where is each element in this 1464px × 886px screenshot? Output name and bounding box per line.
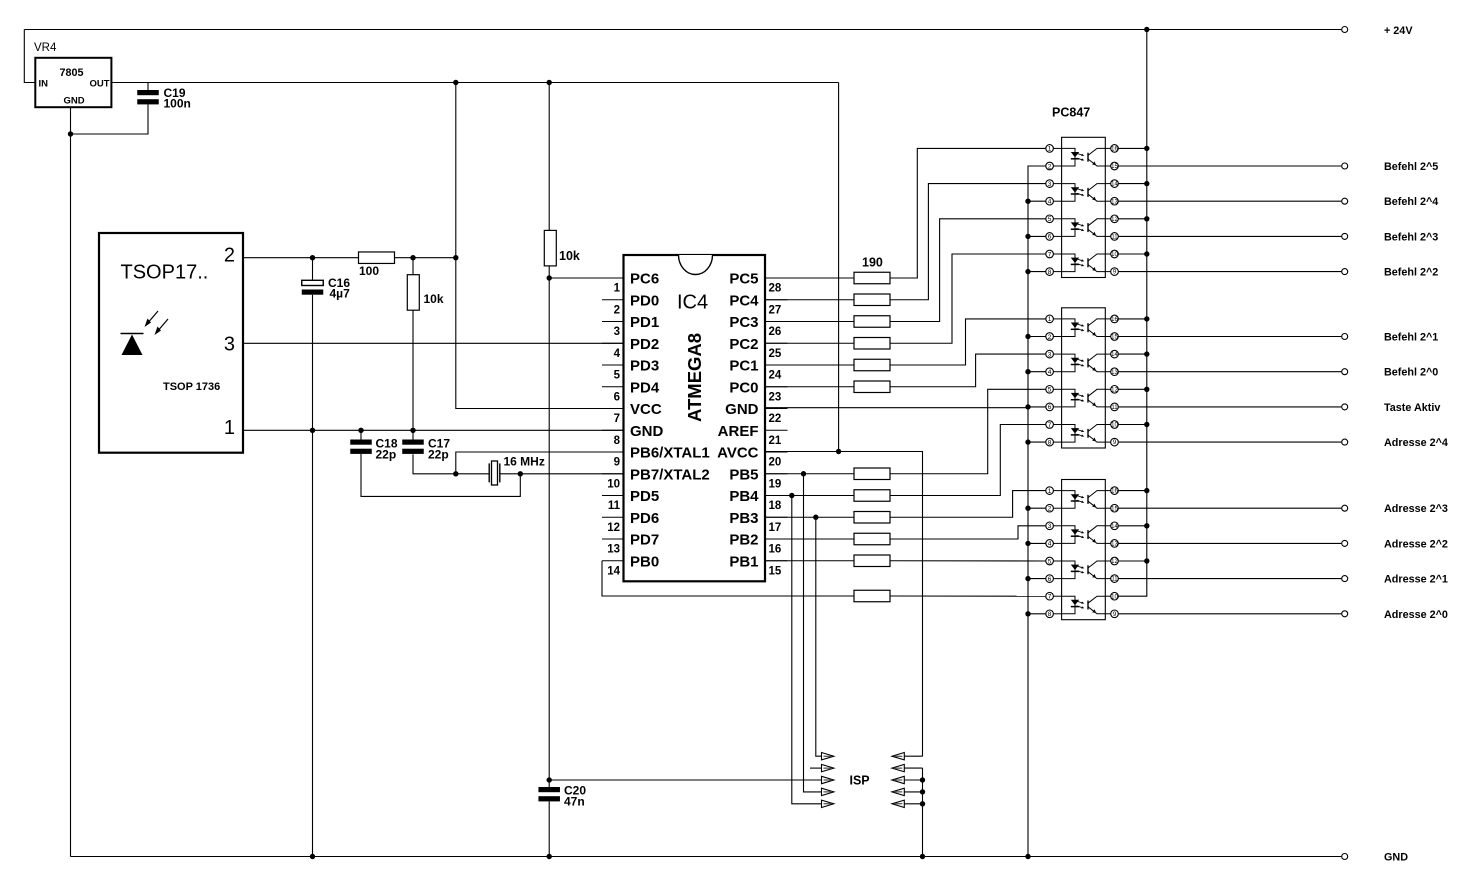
- wire PC0 row: [765, 386, 854, 388]
- svg-text:24: 24: [769, 370, 782, 382]
- wire OK2 collector pin12: [1118, 388, 1147, 390]
- svg-text:2: 2: [1048, 334, 1052, 341]
- pin 24 PC1 stub: [765, 364, 788, 366]
- svg-text:7: 7: [1048, 422, 1052, 429]
- wire TSOP pin1 ground line: [243, 429, 624, 431]
- svg-text:OUT: OUT: [90, 79, 110, 90]
- OK1 left pin 8 circle: [1046, 268, 1054, 276]
- svg-text:Befehl 2^5: Befehl 2^5: [1384, 161, 1438, 173]
- svg-text:13: 13: [1111, 370, 1118, 376]
- pin 17 PB3 stub: [765, 516, 788, 518]
- pin 25 PC2 stub: [765, 342, 788, 344]
- wire ISP MISO from PB4: [792, 496, 822, 804]
- pin 26 PC3 stub: [765, 321, 788, 323]
- svg-text:7: 7: [614, 413, 620, 425]
- svg-text:10: 10: [1111, 594, 1118, 600]
- svg-text:10k: 10k: [559, 249, 580, 263]
- svg-text:PC3: PC3: [729, 314, 758, 331]
- svg-text:5: 5: [614, 370, 621, 382]
- svg-text:13: 13: [607, 544, 620, 556]
- wire ISP MOSI from PB3: [816, 517, 822, 756]
- pin 12 PD6 stub: [602, 516, 624, 518]
- svg-text:21: 21: [769, 435, 782, 447]
- resistor 190 PB1: [854, 555, 890, 567]
- svg-text:16: 16: [1111, 317, 1118, 323]
- junction ISP gnd row5: [920, 801, 925, 806]
- svg-text:15: 15: [769, 565, 782, 577]
- svg-text:PB5: PB5: [729, 466, 758, 483]
- optocoupler OK3 box: [1062, 480, 1106, 620]
- wire PC4 row: [765, 299, 854, 301]
- junction ISP gnd / rail: [920, 854, 925, 859]
- wire OK1 cathode pin4: [1028, 200, 1046, 202]
- junction ISP gnd row4: [920, 789, 925, 794]
- svg-text:8: 8: [1048, 439, 1052, 446]
- svg-text:20: 20: [769, 457, 782, 469]
- OK1 right pin 16 circle: [1111, 145, 1119, 153]
- wire 7805 GND pin down: [70, 107, 72, 856]
- terminal Adresse 2^0: [1342, 611, 1348, 617]
- wire ISP stub row2: [810, 767, 822, 769]
- pin 27 PC4 stub: [765, 299, 788, 301]
- wire output Befehl 2^4: [1118, 200, 1341, 202]
- OK3 left pin 6 circle: [1046, 575, 1054, 583]
- pin 13 PD7 stub: [602, 538, 624, 540]
- svg-text:13: 13: [1111, 199, 1118, 205]
- svg-text:PD3: PD3: [630, 358, 659, 375]
- wire PC6 to pin1: [549, 277, 623, 279]
- svg-text:3: 3: [224, 334, 235, 356]
- wire OK2 collector pin14: [1118, 353, 1147, 355]
- OK1 right pin 15 circle: [1111, 162, 1119, 170]
- ISP left pin 1 arrow: [822, 753, 834, 760]
- svg-text:17: 17: [769, 522, 782, 534]
- svg-text:11: 11: [608, 500, 621, 512]
- svg-text:PB7/XTAL2: PB7/XTAL2: [630, 466, 710, 483]
- pin 28 PC5 stub: [765, 277, 788, 279]
- OK3 left pin 8 circle: [1046, 610, 1054, 618]
- svg-text:Taste Aktiv: Taste Aktiv: [1384, 402, 1440, 414]
- svg-text:1: 1: [1048, 146, 1052, 153]
- svg-text:PD7: PD7: [630, 532, 659, 549]
- OK3 right pin 15 circle: [1111, 504, 1119, 512]
- wire PB1 to opto anode: [890, 560, 1046, 562]
- wire ISP ground vertical: [922, 768, 924, 856]
- optocoupler OK1 cell 3: [1062, 219, 1075, 237]
- wire PB4 to opto anode: [890, 425, 1046, 496]
- optocoupler OK3 cell 1: [1062, 491, 1075, 509]
- svg-text:16: 16: [1111, 489, 1118, 495]
- svg-text:7: 7: [1048, 251, 1052, 258]
- OK2 left pin 5 circle: [1046, 386, 1054, 394]
- wire PB5 to opto anode: [890, 389, 1046, 473]
- svg-text:PC4: PC4: [729, 292, 759, 309]
- svg-text:12: 12: [1111, 217, 1118, 223]
- junction OK1 collector pin14: [1144, 181, 1149, 186]
- IC4 notch: [679, 255, 713, 275]
- optocoupler OK3 cell 4: [1062, 596, 1075, 614]
- resistor 190 PB3: [854, 512, 890, 524]
- junction AVCC: [836, 449, 841, 454]
- junction OK3 collector pin16: [1144, 488, 1149, 493]
- ISP right gnd arrow row 2: [892, 764, 904, 771]
- svg-text:23: 23: [769, 391, 782, 403]
- svg-text:PC1: PC1: [729, 358, 758, 375]
- svg-text:6: 6: [1048, 576, 1052, 583]
- wire PB3 row: [765, 516, 854, 518]
- junction OK2 cathode pin2: [1025, 334, 1030, 339]
- wire +24V top rail: [24, 29, 1341, 31]
- pin 20 AVCC stub: [765, 451, 788, 453]
- wire output Befehl 2^2: [1118, 271, 1341, 273]
- junction OK2 cathode pin4: [1025, 369, 1030, 374]
- svg-text:16: 16: [769, 544, 782, 556]
- wire PC5 to opto anode: [890, 148, 1046, 278]
- svg-text:100n: 100n: [164, 97, 191, 111]
- wire OK2 cathode pin4: [1028, 371, 1046, 373]
- svg-text:8: 8: [614, 435, 621, 447]
- light arrow 2: [157, 319, 169, 333]
- wire TSOP pin2 supply line: [243, 257, 456, 259]
- svg-text:16: 16: [1111, 147, 1118, 153]
- pin 4 PD2 stub: [602, 342, 624, 344]
- svg-text:3: 3: [1048, 351, 1052, 358]
- wire ISP gnd row 2: [904, 767, 922, 769]
- junction OK3 collector pin14: [1144, 523, 1149, 528]
- svg-text:8: 8: [1048, 611, 1052, 618]
- svg-text:18: 18: [769, 500, 782, 512]
- OK1 right pin 11 circle: [1111, 233, 1119, 241]
- wire 5V rail from 7805 OUT: [111, 82, 838, 84]
- svg-text:100: 100: [359, 264, 379, 278]
- svg-text:PD0: PD0: [630, 292, 659, 309]
- optocoupler OK3 cell 3: [1062, 561, 1075, 579]
- junction xtal2: [518, 471, 523, 476]
- wire TSOP pin3 output to PD2: [243, 342, 624, 344]
- wire 7805 IN from rail: [24, 30, 35, 83]
- svg-text:14: 14: [1111, 524, 1118, 530]
- junction PB4 ISP tap: [789, 493, 794, 498]
- pin 1 PC6 stub: [602, 277, 624, 279]
- svg-text:3: 3: [1048, 523, 1052, 530]
- wire OK1 cathode pin2: [1028, 165, 1046, 167]
- OK3 right pin 14 circle: [1111, 522, 1119, 530]
- svg-text:IC4: IC4: [677, 292, 708, 314]
- resistor 190 PB5: [854, 468, 890, 480]
- svg-text:PC5: PC5: [729, 271, 758, 288]
- svg-text:VR4: VR4: [34, 42, 57, 54]
- optocoupler OK2 cell 1: [1062, 319, 1075, 337]
- resistor 190 PC5: [854, 272, 890, 284]
- terminal GND: [1342, 854, 1348, 860]
- junction pin2/VCC vertical: [453, 255, 458, 260]
- junction OK3 cathode pin2: [1025, 506, 1030, 511]
- terminal Befehl 2^2: [1342, 269, 1348, 275]
- junction OK2 collector pin16: [1144, 316, 1149, 321]
- svg-text:3: 3: [1048, 181, 1052, 188]
- svg-text:15: 15: [1111, 335, 1118, 341]
- wire OK1 collector pin16: [1118, 147, 1147, 149]
- svg-text:PC847: PC847: [1052, 106, 1090, 120]
- terminal Befehl 2^3: [1342, 233, 1348, 239]
- microcontroller IC4 ATMEGA8 box: [624, 255, 766, 581]
- resistor 190 PB0: [854, 590, 890, 602]
- terminal +24V: [1342, 27, 1348, 33]
- wire TSOP gnd down to rail: [312, 430, 314, 856]
- wire OK3 collector pin16: [1118, 490, 1147, 492]
- wire OK3 cathode pin6: [1028, 578, 1046, 580]
- svg-text:PB6/XTAL1: PB6/XTAL1: [630, 445, 710, 462]
- svg-text:4: 4: [1048, 541, 1052, 548]
- wire AVCC 5V vertical: [838, 83, 840, 452]
- svg-text:22: 22: [769, 413, 782, 425]
- svg-text:14: 14: [607, 565, 620, 577]
- svg-text:4: 4: [1048, 369, 1052, 376]
- svg-text:1: 1: [614, 283, 621, 295]
- capacitor C16 4u7: [312, 258, 314, 281]
- junction OK3 cathode pin6: [1025, 576, 1030, 581]
- svg-text:10: 10: [1111, 423, 1118, 429]
- svg-text:12: 12: [1111, 387, 1118, 393]
- svg-text:GND: GND: [1384, 852, 1408, 864]
- OK1 right pin 13 circle: [1111, 197, 1119, 205]
- wire OK2 cathode pin6: [1028, 406, 1046, 408]
- svg-text:PD1: PD1: [630, 314, 659, 331]
- OK3 right pin 13 circle: [1111, 540, 1119, 548]
- wire opto cathode ground vertical: [1028, 166, 1046, 857]
- junction 5V rail / VCC vertical: [453, 80, 458, 85]
- junction gnd vertical / bottom rail: [1025, 854, 1030, 859]
- svg-text:PB3: PB3: [729, 510, 758, 527]
- svg-text:10: 10: [1111, 252, 1118, 258]
- svg-text:GND: GND: [725, 401, 759, 418]
- wire output Befehl 2^1: [1118, 336, 1341, 338]
- OK3 right pin 11 circle: [1111, 575, 1119, 583]
- wire PC2 to opto anode: [890, 254, 1046, 343]
- wire PB2 row: [765, 538, 854, 540]
- pin 21 AREF stub: [765, 429, 788, 431]
- OK2 right pin 11 circle: [1111, 403, 1119, 411]
- wire OK3 collector pin14: [1118, 525, 1147, 527]
- svg-text:10: 10: [607, 478, 620, 490]
- wire PC3 row: [765, 321, 854, 323]
- wire OK2 cathode pin8: [1028, 441, 1046, 443]
- svg-text:11: 11: [1111, 235, 1118, 241]
- ISP left pin 5 arrow: [822, 776, 834, 783]
- wire PC1 row: [765, 364, 854, 366]
- wire output Adresse 2^4: [1118, 441, 1341, 443]
- OK2 left pin 8 circle: [1046, 438, 1054, 446]
- wire output Adresse 2^1: [1118, 578, 1341, 580]
- wire OK1 collector pin14: [1118, 183, 1147, 185]
- svg-text:Adresse 2^0: Adresse 2^0: [1384, 609, 1448, 621]
- junction OK2 collector pin12: [1144, 387, 1149, 392]
- svg-text:PD2: PD2: [630, 336, 659, 353]
- svg-text:14: 14: [1111, 182, 1118, 188]
- wire output Taste Aktiv: [1118, 406, 1341, 408]
- resistor 190 PC3: [854, 316, 890, 328]
- junction top rail / 24V vertical: [1144, 27, 1149, 32]
- wire PB3 to opto anode: [890, 491, 1046, 518]
- OK3 left pin 1 circle: [1046, 487, 1054, 495]
- svg-text:4: 4: [614, 348, 621, 360]
- junction pin1/C16 bottom: [310, 428, 315, 433]
- terminal Adresse 2^3: [1342, 505, 1348, 511]
- wire PB0 to opto anode: [890, 595, 1046, 597]
- svg-text:1: 1: [224, 417, 235, 439]
- svg-text:6: 6: [1048, 234, 1052, 241]
- svg-text:22p: 22p: [376, 448, 397, 462]
- resistor 190 PB2: [854, 533, 890, 545]
- wire ISP gnd row 3: [904, 779, 922, 781]
- junction PB3 ISP tap: [813, 515, 818, 520]
- junction OK1 cathode pin4: [1025, 199, 1030, 204]
- wire XTAL2 line to pin10: [500, 473, 624, 475]
- svg-text:PB2: PB2: [729, 532, 758, 549]
- OK2 right pin 16 circle: [1111, 315, 1119, 323]
- OK2 left pin 2 circle: [1046, 333, 1054, 341]
- svg-text:11: 11: [1111, 405, 1118, 411]
- svg-text:16 MHz: 16 MHz: [504, 455, 545, 469]
- OK2 right pin 14 circle: [1111, 350, 1119, 358]
- pin 15 PB1 stub: [765, 560, 788, 562]
- svg-text:Adresse 2^1: Adresse 2^1: [1384, 574, 1448, 586]
- capacitor C17 22p: [412, 430, 414, 439]
- svg-text:PD4: PD4: [630, 379, 660, 396]
- svg-text:ATMEGA8: ATMEGA8: [684, 333, 705, 422]
- capacitor C20 47n: [548, 780, 550, 787]
- wire XTAL1 line: [413, 454, 489, 474]
- OK1 left pin 2 circle: [1046, 162, 1054, 170]
- wire XTAL1 pin9 jog: [456, 452, 624, 474]
- svg-text:1: 1: [1048, 316, 1052, 323]
- svg-text:9: 9: [614, 457, 620, 469]
- OK2 right pin 9 circle: [1111, 438, 1119, 446]
- wire OK2 collector pin10: [1118, 424, 1147, 426]
- OK2 left pin 4 circle: [1046, 368, 1054, 376]
- wire AVCC pin20 line: [765, 452, 923, 757]
- wire output Adresse 2^2: [1118, 542, 1341, 544]
- pin 8 GND stub: [602, 429, 624, 431]
- junction OK1 cathode pin6: [1025, 234, 1030, 239]
- svg-text:7: 7: [1048, 594, 1052, 601]
- svg-text:4µ7: 4µ7: [330, 287, 351, 301]
- OK3 left pin 4 circle: [1046, 540, 1054, 548]
- wire PC5 row: [765, 277, 854, 279]
- wire OK1 collector pin12: [1118, 218, 1147, 220]
- optocoupler OK2 cell 4: [1062, 425, 1075, 443]
- svg-text:6: 6: [1048, 404, 1052, 411]
- terminal Befehl 2^1: [1342, 334, 1348, 340]
- junction OK2 cathode pin6: [1025, 404, 1030, 409]
- optocoupler OK1 box: [1062, 137, 1106, 277]
- voltage regulator VR4 7805 box: [35, 58, 111, 107]
- OK2 left pin 1 circle: [1046, 315, 1054, 323]
- pin 3 PD1 stub: [602, 321, 624, 323]
- IR receiver TSOP17.. box: [99, 233, 243, 453]
- optocoupler OK2 cell 2: [1062, 354, 1075, 372]
- OK3 right pin 10 circle: [1111, 592, 1119, 600]
- wire output Befehl 2^3: [1118, 235, 1341, 237]
- svg-text:PD6: PD6: [630, 510, 659, 527]
- junction pin2/C16: [310, 255, 315, 260]
- terminal Adresse 2^4: [1342, 439, 1348, 445]
- svg-text:Adresse 2^4: Adresse 2^4: [1384, 437, 1448, 449]
- wire output Befehl 2^0: [1118, 371, 1341, 373]
- svg-text:PC2: PC2: [729, 336, 758, 353]
- OK2 right pin 12 circle: [1111, 386, 1119, 394]
- wire ISP gnd row 5: [904, 803, 922, 805]
- svg-text:Adresse 2^3: Adresse 2^3: [1384, 503, 1448, 515]
- resistor 100: [359, 252, 395, 264]
- svg-text:GND: GND: [64, 96, 85, 107]
- svg-text:22p: 22p: [428, 448, 449, 462]
- svg-text:2: 2: [614, 304, 620, 316]
- svg-text:26: 26: [769, 326, 782, 338]
- wire ISP RESET from C20 node: [549, 779, 821, 781]
- junction C20 / rail: [547, 854, 552, 859]
- pin 5 PD3 stub: [602, 364, 624, 366]
- svg-text:15: 15: [1111, 506, 1118, 512]
- svg-text:2: 2: [1048, 163, 1052, 170]
- svg-text:14: 14: [1111, 352, 1118, 358]
- optocoupler OK2 box: [1062, 308, 1106, 448]
- svg-text:4: 4: [1048, 199, 1052, 206]
- svg-text:AVCC: AVCC: [717, 445, 759, 462]
- svg-text:19: 19: [769, 478, 782, 490]
- OK2 left pin 6 circle: [1046, 403, 1054, 411]
- svg-text:Befehl 2^4: Befehl 2^4: [1384, 196, 1438, 208]
- OK1 left pin 5 circle: [1046, 215, 1054, 223]
- pin 2 PD0 stub: [602, 299, 624, 301]
- svg-text:PD5: PD5: [630, 488, 659, 505]
- terminal Adresse 2^2: [1342, 540, 1348, 546]
- OK1 right pin 14 circle: [1111, 180, 1119, 188]
- wire PB5 row: [765, 473, 854, 475]
- terminal Befehl 2^5: [1342, 163, 1348, 169]
- pin 10 PB7/XTAL2 stub: [602, 473, 624, 475]
- OK1 left pin 1 circle: [1046, 145, 1054, 153]
- resistor 190 PC1: [854, 359, 890, 371]
- junction TSOP gnd / rail: [310, 854, 315, 859]
- svg-text:28: 28: [769, 283, 782, 295]
- svg-text:2: 2: [1048, 506, 1052, 513]
- wire OK3 cathode pin8: [1028, 613, 1046, 615]
- OK3 left pin 2 circle: [1046, 504, 1054, 512]
- junction OK1 collector pin16: [1144, 146, 1149, 151]
- svg-text:47n: 47n: [564, 795, 585, 809]
- pin 11 PD5 stub: [602, 495, 624, 497]
- svg-text:27: 27: [769, 304, 782, 316]
- pin 7 VCC stub: [602, 408, 624, 410]
- svg-text:ISP: ISP: [850, 774, 870, 788]
- ISP right gnd arrow row 4: [892, 788, 904, 795]
- svg-text:190: 190: [862, 256, 883, 270]
- crystal Q1 16 MHz: [488, 463, 490, 482]
- svg-text:PB0: PB0: [630, 553, 659, 570]
- optocoupler OK1 cell 1: [1062, 148, 1075, 166]
- pin 22 GND stub: [765, 408, 788, 410]
- svg-text:8: 8: [1048, 269, 1052, 276]
- wire output Befehl 2^5: [1118, 165, 1341, 167]
- terminal Taste Aktiv: [1342, 404, 1348, 410]
- junction OK1 collector pin10: [1144, 251, 1149, 256]
- ISP right pin 2 arrow VCC: [892, 753, 904, 760]
- wire PC2 row: [765, 342, 854, 344]
- capacitor C19 100n: [147, 83, 149, 91]
- junction pin2/10k: [410, 255, 415, 260]
- svg-text:1: 1: [1048, 488, 1052, 495]
